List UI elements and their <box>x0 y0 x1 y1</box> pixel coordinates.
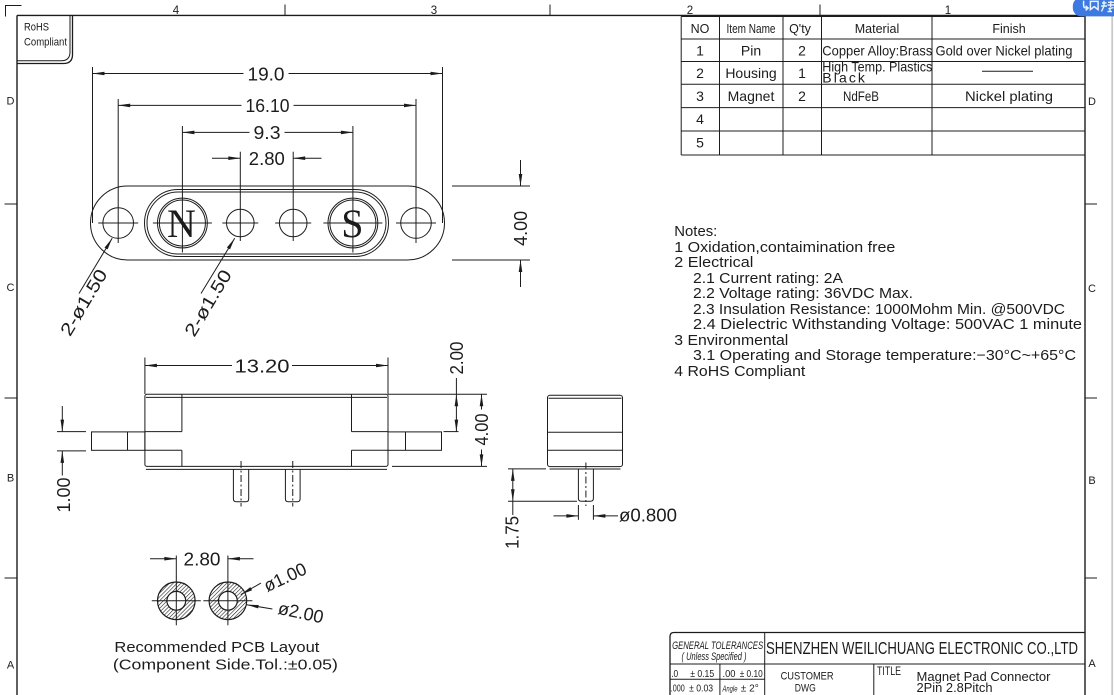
svg-text:SHENZHEN WEILICHUANG ELECTRONI: SHENZHEN WEILICHUANG ELECTRONIC CO.,LTD <box>766 638 1078 658</box>
svg-text:2.80: 2.80 <box>184 549 221 569</box>
svg-text:B: B <box>1088 475 1095 487</box>
svg-text:C: C <box>7 282 15 294</box>
svg-text:± 0.03: ± 0.03 <box>689 683 713 695</box>
svg-text:13.20: 13.20 <box>235 356 290 376</box>
svg-text:Material: Material <box>855 22 899 36</box>
svg-text:2: 2 <box>696 65 704 81</box>
svg-text:Magnet: Magnet <box>728 88 775 104</box>
svg-text:2.4 Dielectric Withstanding Vo: 2.4 Dielectric Withstanding Voltage: 500… <box>693 317 1082 333</box>
svg-text:± 0.10: ± 0.10 <box>740 668 763 680</box>
svg-text:Notes:: Notes: <box>674 224 717 240</box>
svg-text:.000: .000 <box>671 683 685 695</box>
svg-text:2: 2 <box>687 5 693 17</box>
svg-text:1: 1 <box>696 43 704 59</box>
svg-text:.0: .0 <box>671 668 678 680</box>
svg-text:( Unless Specified ): ( Unless Specified ) <box>682 651 747 663</box>
svg-text:B: B <box>7 473 14 485</box>
svg-text:1: 1 <box>945 5 951 17</box>
svg-text:(Component Side.Tol.:±0.05): (Component Side.Tol.:±0.05) <box>113 658 338 674</box>
svg-text:TITLE: TITLE <box>877 666 901 678</box>
svg-text:4 RoHS Compliant: 4 RoHS Compliant <box>674 364 805 380</box>
svg-text:5: 5 <box>696 135 704 151</box>
svg-text:9.3: 9.3 <box>254 123 281 143</box>
svg-text:Recommended PCB Layout: Recommended PCB Layout <box>114 640 319 656</box>
svg-text:Black: Black <box>822 70 867 86</box>
svg-text:NdFeB: NdFeB <box>843 88 879 104</box>
svg-text:2.00: 2.00 <box>447 342 467 375</box>
svg-text:Gold over Nickel plating: Gold over Nickel plating <box>936 43 1073 59</box>
svg-text:Compliant: Compliant <box>24 37 68 49</box>
svg-text:2Pin 2.8Pitch: 2Pin 2.8Pitch <box>917 681 993 695</box>
svg-text:1: 1 <box>798 65 806 81</box>
svg-text:CUSTOMER: CUSTOMER <box>781 671 834 683</box>
svg-text:D: D <box>7 96 15 108</box>
svg-text:2: 2 <box>798 88 806 104</box>
svg-text:4.00: 4.00 <box>472 414 492 446</box>
svg-text:3: 3 <box>696 88 704 104</box>
svg-text:4.00: 4.00 <box>511 211 531 246</box>
svg-text:NO: NO <box>691 22 710 36</box>
svg-text:N: N <box>167 201 196 246</box>
svg-text:A: A <box>1088 658 1096 670</box>
svg-text:± 2°: ± 2° <box>741 683 759 695</box>
svg-text:Pin: Pin <box>741 43 761 59</box>
svg-text:Nickel plating: Nickel plating <box>965 88 1053 104</box>
svg-text:3: 3 <box>431 5 437 17</box>
svg-text:2.80: 2.80 <box>249 149 285 169</box>
svg-text:ø0.800: ø0.800 <box>619 506 677 526</box>
svg-text:2.3 Insulation Resistance: 100: 2.3 Insulation Resistance: 1000Mohm Min.… <box>693 302 1065 318</box>
svg-text:1.00: 1.00 <box>54 478 74 513</box>
svg-text:RoHS: RoHS <box>24 22 49 34</box>
svg-text:19.0: 19.0 <box>248 64 285 84</box>
svg-text:Item Name: Item Name <box>727 22 776 36</box>
svg-text:2.1 Current rating: 2A: 2.1 Current rating: 2A <box>693 271 843 287</box>
svg-text:S: S <box>341 201 363 246</box>
svg-text:Housing: Housing <box>725 65 776 81</box>
svg-text:DWG: DWG <box>795 683 816 695</box>
svg-text:16.10: 16.10 <box>246 96 290 116</box>
svg-text:1 Oxidation,contaimination fre: 1 Oxidation,contaimination free <box>674 240 895 256</box>
svg-text:.00: .00 <box>723 668 736 680</box>
svg-text:± 0.15: ± 0.15 <box>690 668 714 680</box>
svg-text:D: D <box>1088 96 1096 108</box>
svg-text:A: A <box>7 660 15 672</box>
svg-text:3 Environmental: 3 Environmental <box>674 333 788 349</box>
svg-text:2: 2 <box>798 43 806 59</box>
svg-text:2.2 Voltage rating: 36VDC Max.: 2.2 Voltage rating: 36VDC Max. <box>693 286 913 302</box>
svg-text:Copper Alloy:Brass: Copper Alloy:Brass <box>822 43 932 59</box>
svg-text:4: 4 <box>696 111 704 127</box>
svg-text:Q'ty: Q'ty <box>789 22 812 36</box>
svg-text:Angle: Angle <box>722 684 738 694</box>
svg-text:Finish: Finish <box>992 22 1025 36</box>
svg-text:2 Electrical: 2 Electrical <box>674 255 753 271</box>
svg-text:3.1 Operating and Storage temp: 3.1 Operating and Storage temperature:−3… <box>693 348 1076 364</box>
svg-text:4: 4 <box>173 5 180 17</box>
svg-text:1.75: 1.75 <box>503 516 523 549</box>
svg-text:C: C <box>1088 283 1096 295</box>
